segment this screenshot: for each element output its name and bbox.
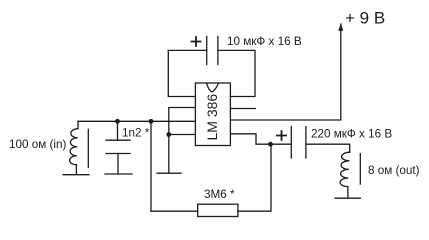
ground (pins 2 and 4) xyxy=(157,172,181,174)
wire pin 4 xyxy=(169,134,196,136)
output transducer diaphragm line xyxy=(359,154,361,184)
wire C1 right to pin 8 xyxy=(218,50,255,96)
ground (output transducer) xyxy=(335,187,360,199)
svg-text:100 ом (in): 100 ом (in) xyxy=(9,138,67,151)
capacitor C3 220uF plates xyxy=(291,127,306,159)
input transducer diaphragm line xyxy=(87,129,89,167)
wire pin 2 down to ground xyxy=(169,108,196,173)
svg-text:8 ом (out): 8 ом (out) xyxy=(368,164,420,177)
resistor R1 3M6 body xyxy=(198,204,238,216)
svg-text:1n2 *: 1n2 * xyxy=(122,127,150,140)
input transducer 100 ohm coil xyxy=(70,121,78,164)
wire pin 6 to +9V rail xyxy=(230,24,340,120)
+9V arrowhead xyxy=(338,23,343,31)
svg-text:+ 9 В: + 9 В xyxy=(345,8,385,27)
ground (input transducer) xyxy=(63,165,89,175)
node A junction dot (1n2 tap) xyxy=(115,119,120,124)
svg-text:3М6 *: 3М6 * xyxy=(204,188,235,201)
capacitor C2 1n2 xyxy=(106,121,130,173)
node B junction dot (feedback tap) xyxy=(149,119,154,124)
wire C1 top left xyxy=(168,49,206,51)
polarity + of C1 xyxy=(192,37,201,46)
pin 7 stub xyxy=(230,108,255,110)
U1 notch xyxy=(207,84,219,92)
ground (C2) xyxy=(105,173,132,175)
op-amp U1 LM386 body xyxy=(195,83,230,146)
wire pin 5 to output node xyxy=(230,134,291,144)
svg-text:LM 386: LM 386 xyxy=(204,94,220,141)
svg-text:220 мкФ x 16 В: 220 мкФ x 16 В xyxy=(311,127,392,140)
node output/feedback junction dot xyxy=(268,142,273,147)
wire R1 to output node xyxy=(238,144,271,211)
capacitor C1 10uF plates xyxy=(207,36,218,64)
wire bottom to R1 xyxy=(151,210,198,212)
wire input signal to IC pin 3 xyxy=(78,120,195,122)
output transducer 8 ohm coil xyxy=(340,152,350,186)
polarity + of C3 xyxy=(277,131,286,140)
wire pin 1 to C1 left lead xyxy=(168,50,195,96)
wire feedback left vertical xyxy=(150,121,152,211)
node junction dot at pin 4 xyxy=(166,132,171,137)
wire C3 to output transducer xyxy=(306,144,350,152)
svg-text:10 мкФ x 16 В: 10 мкФ x 16 В xyxy=(227,35,302,48)
